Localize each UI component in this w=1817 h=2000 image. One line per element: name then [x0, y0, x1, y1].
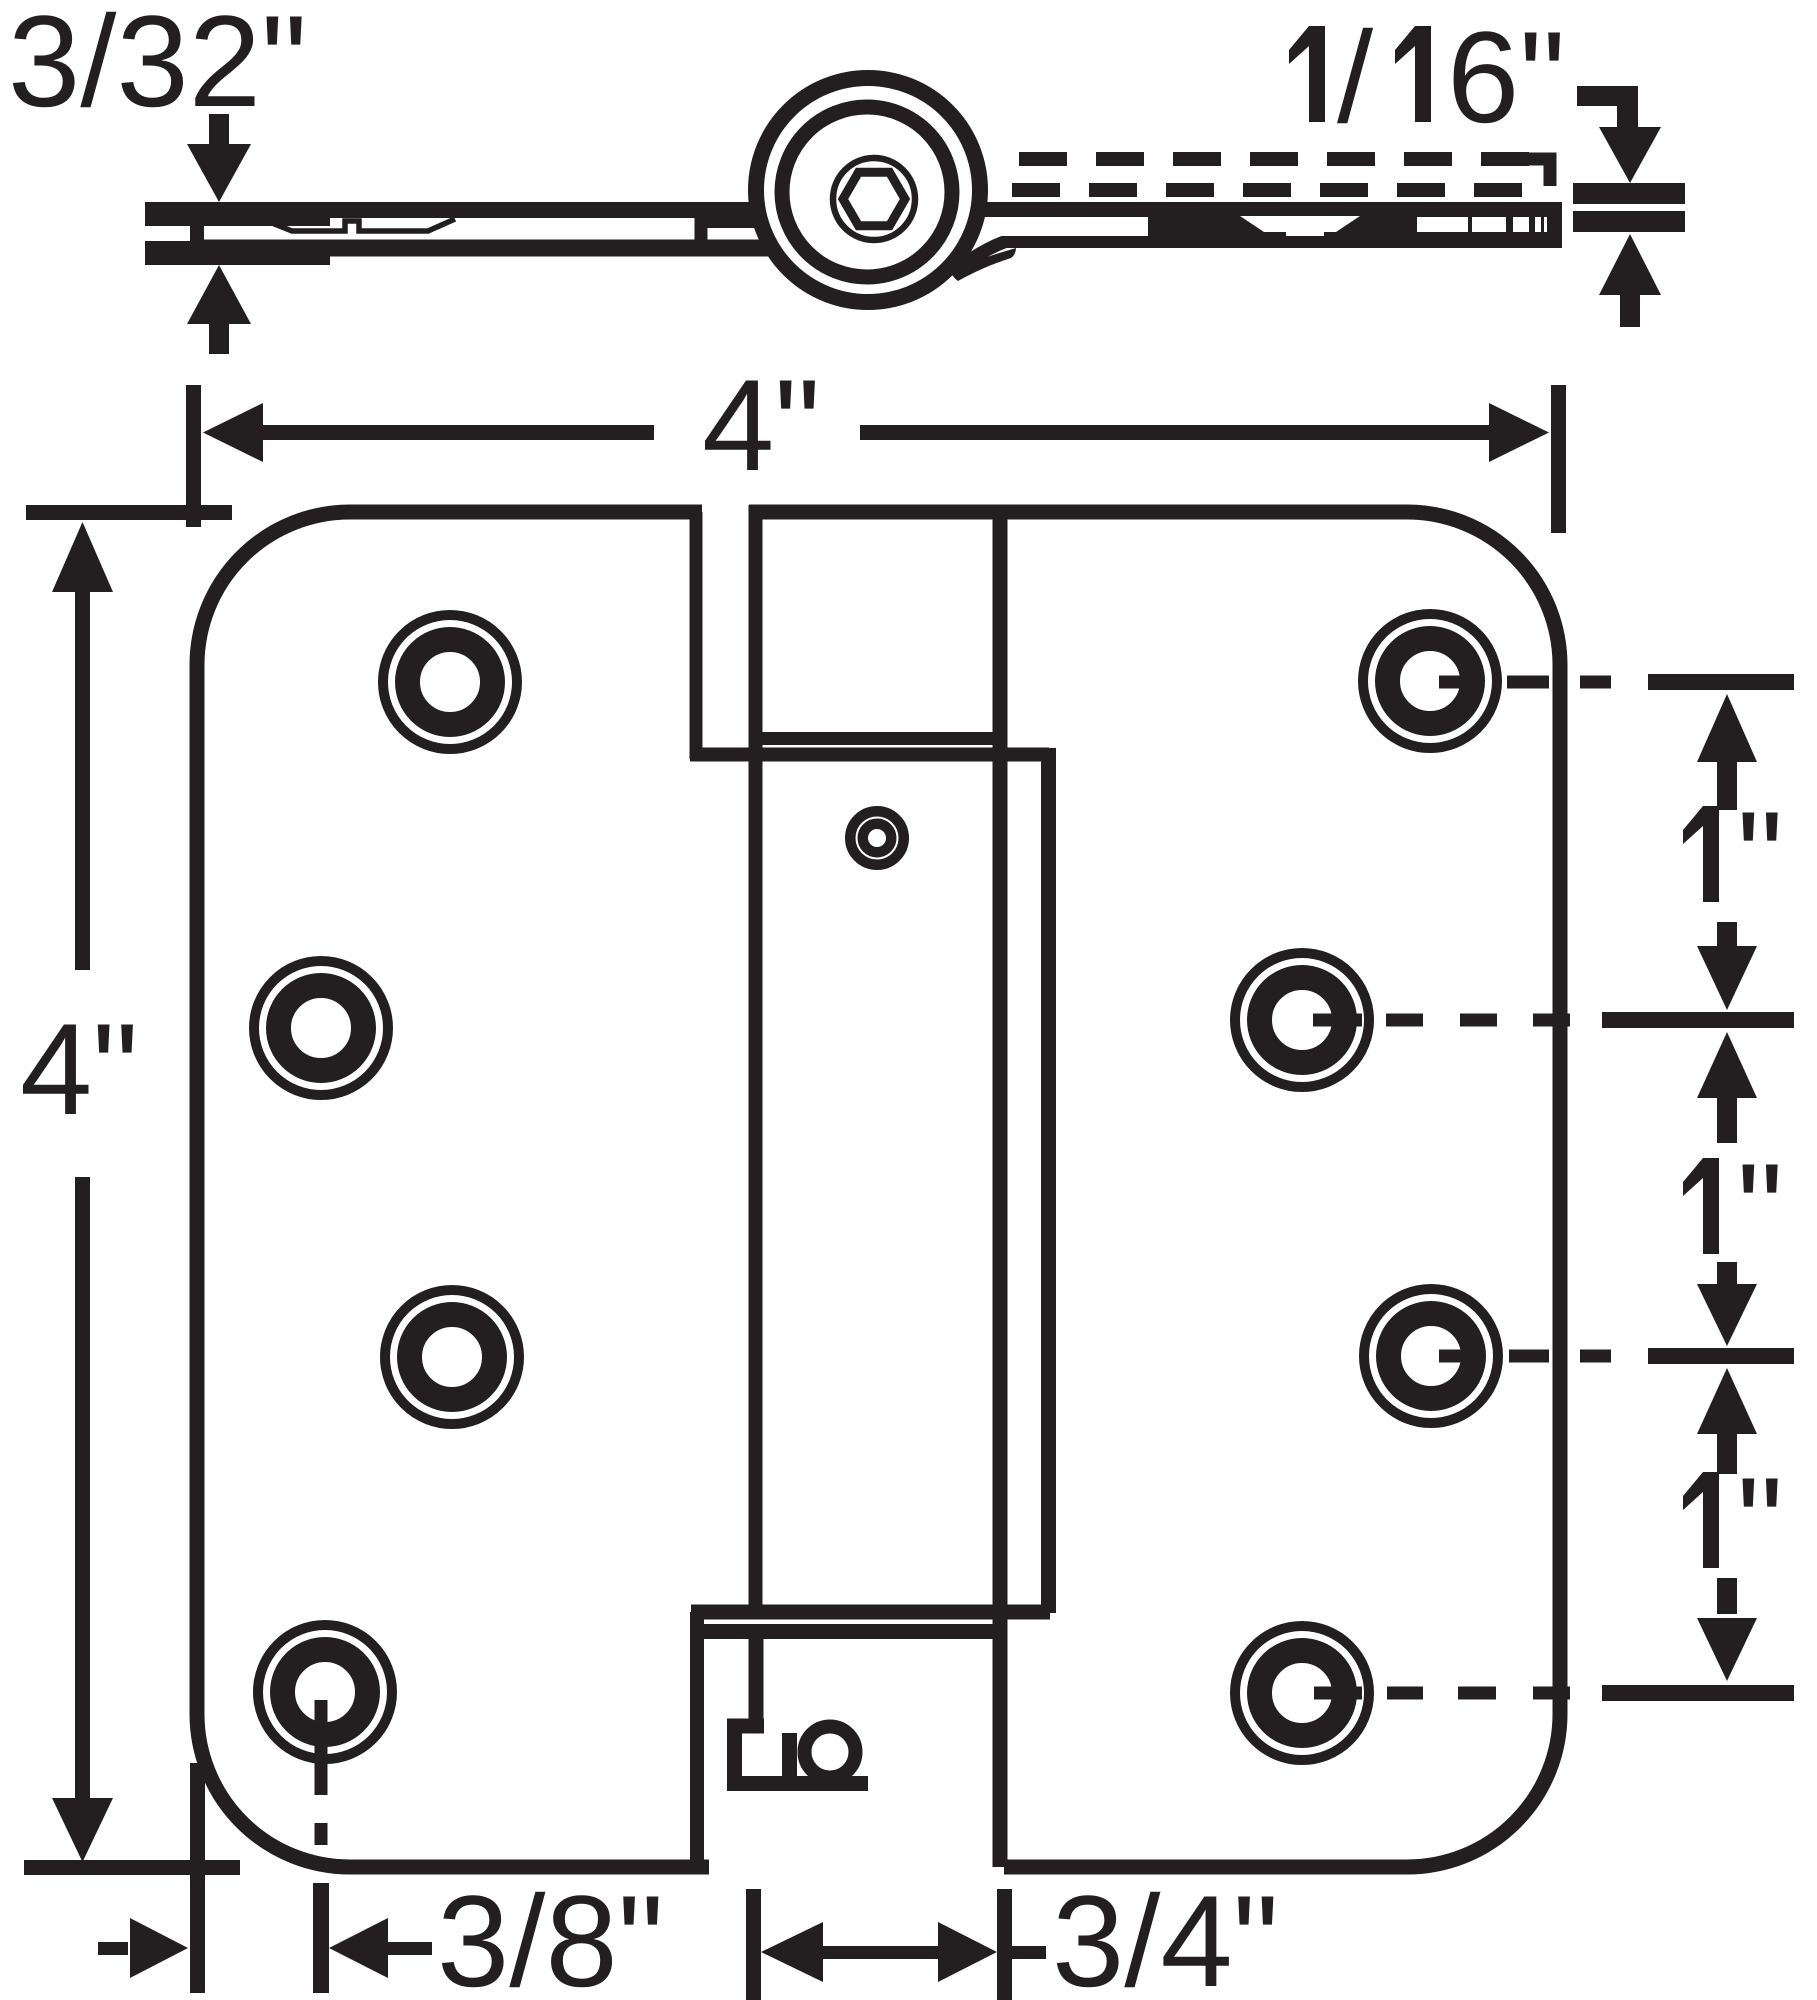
plate: latch left wall	[727, 1726, 742, 1783]
svg-text:6": 6"	[1447, 4, 1565, 150]
dim 1/16: up arrow	[1599, 234, 1661, 295]
svg-text:": "	[1737, 1450, 1783, 1596]
plate: latch wall	[749, 1639, 764, 1726]
hole R1	[1363, 614, 1497, 748]
svg-text:3/4": 3/4"	[1052, 1868, 1279, 2000]
label 1/16	[1289, 26, 1431, 122]
dim 4 left: line lower segment	[75, 1177, 90, 1799]
dim 3/4: right tick	[997, 1889, 1012, 2000]
plate: channel left edge	[749, 505, 763, 1612]
side view: hex socket ring	[833, 158, 915, 240]
svg-text:4": 4"	[20, 996, 138, 1142]
dim 1/16: down arrow	[1599, 127, 1661, 183]
dim 4 left: down arrow	[52, 1798, 113, 1862]
side view: left leaf left end cap	[190, 203, 204, 256]
dim 3/32: down arrow shaft	[209, 114, 229, 146]
side view: left leaf bottom edge	[190, 240, 770, 257]
plate: latch step	[727, 1719, 764, 1734]
side view: right leaf countersink window	[1240, 216, 1360, 232]
side view: left leaf top edge	[190, 202, 762, 218]
dim 3/8: right tick	[313, 1883, 329, 1993]
dim 3/8: right-pointing arrow	[98, 1942, 128, 1955]
svg-text:/: /	[1337, 4, 1374, 150]
side view: right leaf dashed line A	[1019, 152, 1537, 166]
dim 4 top: left arrow	[203, 403, 263, 462]
hole L2	[254, 961, 388, 1095]
svg-text:": "	[1737, 1136, 1783, 1282]
side view: hex socket	[843, 172, 905, 226]
dim 3/32: down arrow	[187, 144, 251, 202]
plate: center long vertical	[993, 512, 1008, 1867]
dim 4 top: right arrow	[1489, 403, 1549, 462]
centerline L4 vertical	[315, 1700, 328, 1845]
plate: right leaf outline	[1000, 512, 1560, 1867]
centerline R2	[1313, 1014, 1570, 1027]
dim 3/4: right tail	[1012, 1946, 1046, 1959]
dim 1/16: lower bar	[1573, 211, 1685, 232]
plate: housing top bar	[762, 732, 1007, 745]
plate: housing bottom bar upper	[691, 1605, 1050, 1620]
plate: left leaf right edge upper	[690, 512, 703, 759]
dim 3/4: left arrow	[761, 1922, 823, 1982]
hole L1	[383, 615, 517, 749]
plate: left leaf right edge lower	[690, 1612, 704, 1867]
dim 3/32: lower bar	[145, 241, 330, 265]
label 1 row3	[1683, 1472, 1719, 1568]
dim 3/4: right arrow	[938, 1922, 997, 1982]
dim 4 top: line left segment	[258, 425, 654, 440]
dim 3/32: up arrow	[187, 265, 251, 324]
dim 3/8: left tick extension	[190, 1763, 205, 1993]
side view: left leaf countersink detail	[262, 219, 455, 231]
plate: housing bottom bar lower	[704, 1624, 1007, 1639]
side view: right leaf slab body	[1148, 216, 1562, 236]
dim 3/4: shaft	[823, 1946, 938, 1959]
dim 1 rows: extension lines	[1648, 674, 1794, 690]
plate: left leaf outline	[197, 512, 709, 1867]
dim 4 top: left tick	[186, 385, 201, 527]
dim 4 top: right tick	[1551, 385, 1566, 533]
svg-text:3/32": 3/32"	[8, 0, 307, 134]
dim 1/16: upper bar	[1573, 183, 1685, 204]
dim 1 gap3 arrows	[1697, 1368, 1757, 1434]
hole R2	[1235, 953, 1369, 1087]
dim 1 gap2 arrows	[1697, 1032, 1757, 1098]
side view: knuckle inner circle	[782, 107, 952, 277]
hole R4	[1235, 1626, 1369, 1760]
side view: right leaf top bar	[983, 202, 1562, 217]
side view: leaf joint fill	[700, 216, 762, 228]
side view: right leaf dashed line B	[1012, 183, 1542, 197]
dim 4 left: top extension line	[26, 505, 232, 520]
label 1 row2	[1683, 1158, 1719, 1254]
svg-text:4": 4"	[702, 352, 820, 498]
dim 3/8: left-pointing arrow	[329, 1918, 388, 1978]
svg-text:": "	[1737, 784, 1783, 930]
side view: right leaf dashed hook	[1528, 159, 1550, 186]
side view: right leaf end windows	[1417, 217, 1468, 232]
dim 3/32: up arrow shaft	[209, 324, 229, 354]
hole R3	[1364, 1289, 1498, 1423]
centerline R4	[1314, 1687, 1570, 1700]
label 1 row1	[1683, 806, 1719, 902]
side view: right leaf S connector	[961, 242, 1004, 266]
plate: center jog bar	[690, 748, 1049, 762]
dim 4 left: line upper segment	[75, 590, 90, 970]
side view: right leaf knuckle fillet tail	[950, 248, 1016, 281]
centerline R3	[1439, 1350, 1611, 1363]
hole L4	[258, 1625, 392, 1759]
plate: latch pin	[805, 1727, 856, 1778]
plate: housing screw hole	[857, 818, 898, 859]
svg-text:3/8": 3/8"	[437, 1868, 664, 2000]
dim 4 left: bottom extension line	[24, 1860, 240, 1875]
hole L3	[385, 1290, 519, 1424]
dim 3/4: left tick	[746, 1889, 761, 2000]
side view: knuckle outer circle	[756, 78, 980, 302]
dim 1 gap1 arrows	[1697, 694, 1757, 762]
side view: right leaf bottom band	[1002, 236, 1562, 248]
centerline R1	[1439, 676, 1611, 689]
plate: latch tick	[782, 1733, 797, 1776]
dim 1/16: up arrow shaft	[1620, 295, 1640, 327]
dim 4 left: up arrow	[52, 522, 113, 592]
dim 1/16: leader bracket	[1577, 86, 1637, 106]
plate: center top edge	[749, 505, 1000, 520]
side view: leaf joint divider	[695, 218, 708, 240]
plate: housing outer right edge	[1041, 748, 1056, 1613]
plate: latch bottom bar	[727, 1776, 868, 1791]
dim 4 top: line right segment	[860, 425, 1493, 440]
dim 3/32: upper bar	[145, 202, 330, 226]
